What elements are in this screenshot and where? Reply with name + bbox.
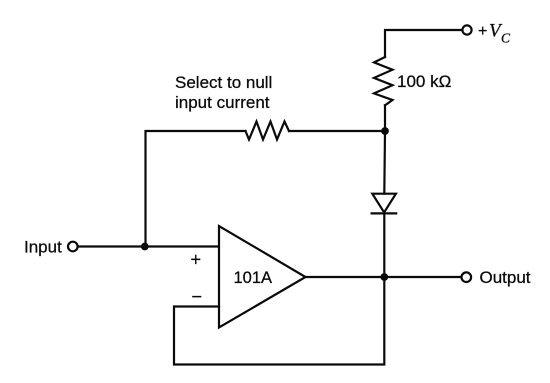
- svg-text:+: +: [191, 250, 202, 270]
- svg-text:Output: Output: [480, 268, 531, 287]
- svg-text:100 kΩ: 100 kΩ: [397, 72, 451, 91]
- svg-text:Input: Input: [24, 238, 62, 257]
- svg-text:−: −: [192, 287, 203, 307]
- resistor R2 select-to-null: [246, 122, 290, 140]
- label +VC: [478, 21, 511, 46]
- wire Input terminal to op-amp + input: [79, 245, 219, 247]
- label Select to null input current: [175, 73, 272, 112]
- svg-text:C: C: [501, 31, 511, 46]
- svg-text:101A: 101A: [234, 269, 273, 287]
- svg-text:Select to null: Select to null: [175, 73, 272, 92]
- wire node A left to null resistor: [289, 130, 385, 132]
- terminal Output: [462, 272, 472, 282]
- svg-text:input current: input current: [175, 93, 270, 112]
- terminal Input: [68, 242, 78, 252]
- op-amp U1: [219, 226, 306, 328]
- wire op-amp output to output terminal: [306, 276, 462, 278]
- node input junction: [141, 243, 149, 251]
- diode D1: [372, 194, 397, 214]
- wire diode cathode to output node: [383, 213, 385, 277]
- wire R1 bottom to node A: [384, 105, 386, 131]
- node output junction: [380, 273, 388, 281]
- resistor R1 100 kOhm: [374, 57, 393, 105]
- svg-text:+: +: [478, 23, 487, 40]
- node A (junction R1 / null resistor / diode): [381, 127, 389, 135]
- wire inverting input feedback: left, down, along bottom, up to output node: [174, 277, 384, 365]
- wire null resistor to left corner and down to input node: [146, 131, 246, 247]
- terminal +VC: [462, 25, 471, 34]
- wire node A down to diode anode: [383, 131, 386, 194]
- wire top rail to +VC terminal: [385, 30, 462, 57]
